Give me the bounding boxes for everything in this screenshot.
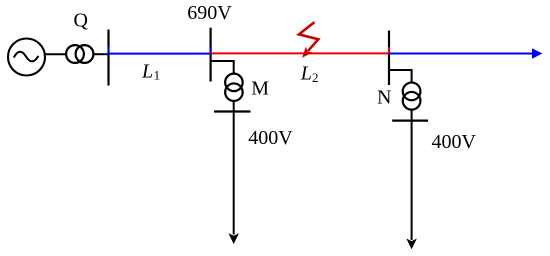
transformer M: [225, 74, 243, 101]
line L2 (red): [211, 47, 389, 53]
busbar A (generator bus): [107, 30, 109, 86]
fault lightning arrow: [299, 22, 318, 57]
svg-text:L: L: [300, 62, 312, 84]
svg-text:N: N: [377, 87, 391, 109]
svg-text:400V: 400V: [248, 127, 293, 149]
wire busbar B to transformer M: [211, 61, 234, 74]
svg-text:Q: Q: [74, 10, 89, 32]
feeder arrow below N: [406, 110, 417, 249]
transformer Q: [66, 45, 93, 63]
label L1: [141, 61, 160, 83]
LV busbar below N: [392, 119, 428, 121]
label L2: [300, 62, 319, 85]
wire generator to transformer Q: [45, 53, 67, 55]
svg-text:400V: 400V: [432, 131, 477, 153]
wire Q to busbar A: [93, 53, 108, 55]
wire busbar C to transformer N: [389, 70, 412, 82]
svg-text:M: M: [251, 78, 269, 100]
outgoing line (blue) with arrow: [389, 48, 543, 59]
generator G: [8, 39, 45, 76]
busbar B (690V bus): [210, 28, 212, 82]
busbar C: [388, 31, 390, 86]
svg-text:2: 2: [312, 70, 319, 85]
svg-text:690V: 690V: [187, 2, 232, 24]
feeder arrow below M: [228, 102, 239, 245]
transformer N: [403, 83, 421, 110]
svg-text:1: 1: [154, 68, 161, 83]
line L1 (blue): [109, 47, 211, 54]
LV busbar below M: [214, 110, 251, 112]
svg-text:L: L: [141, 61, 153, 83]
